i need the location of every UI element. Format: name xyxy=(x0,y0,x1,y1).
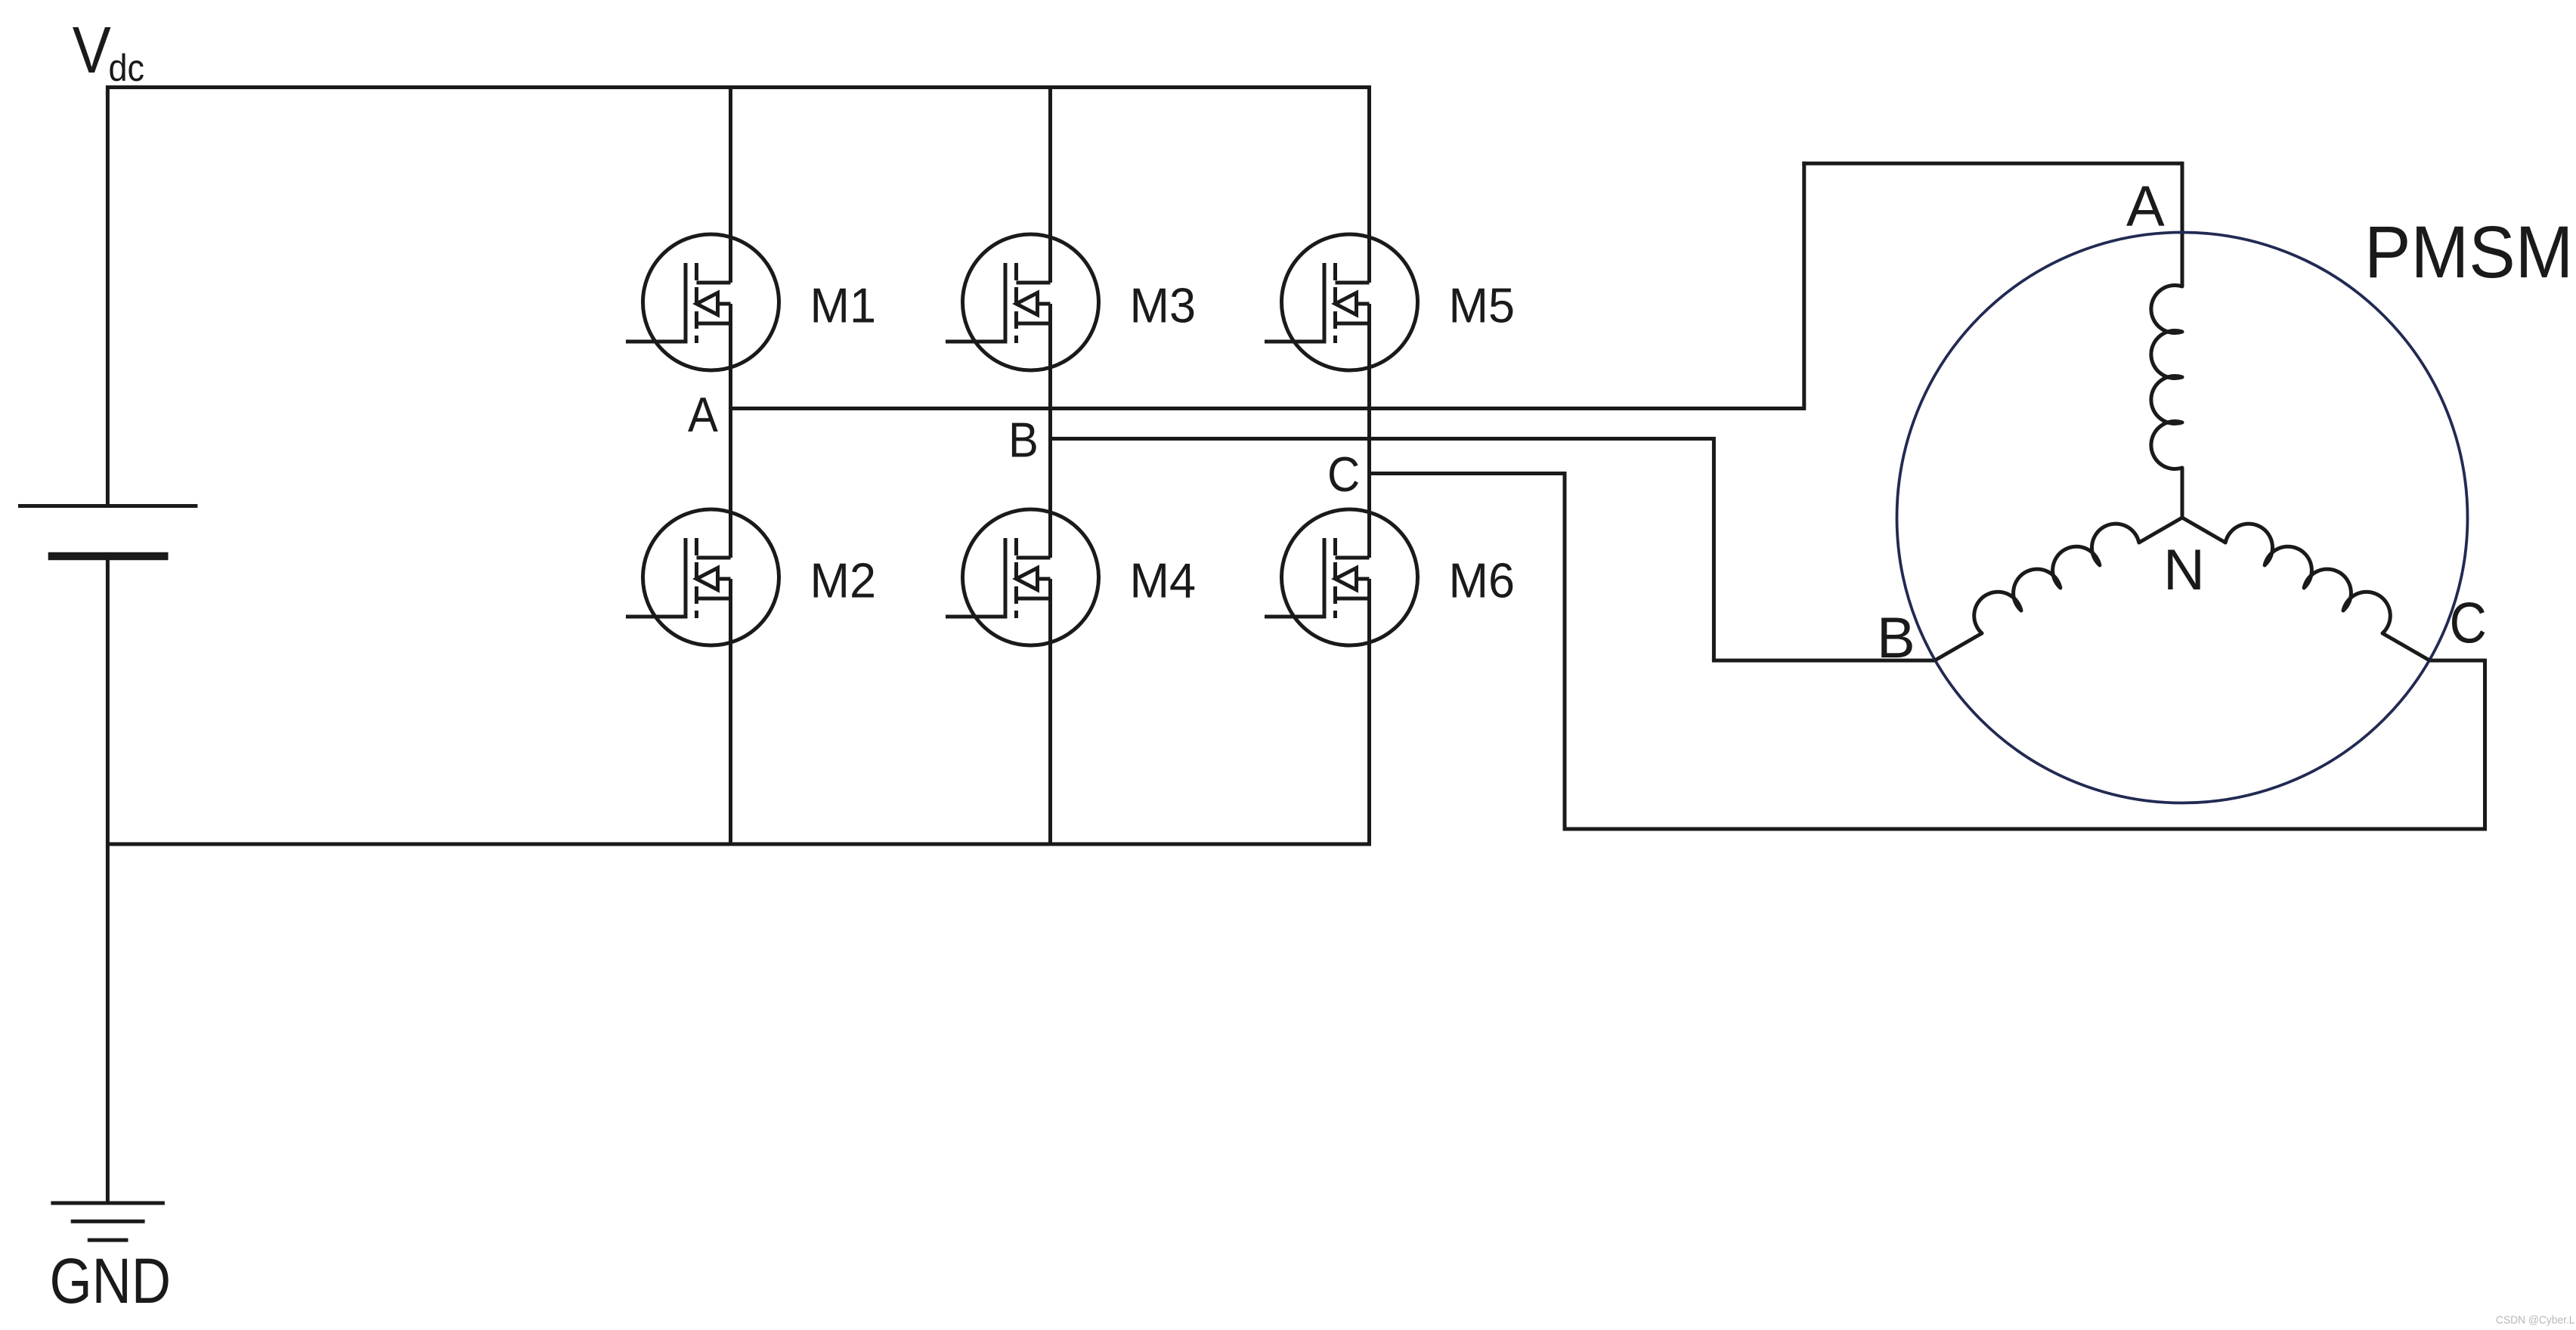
wire: battery positive lead xyxy=(106,85,110,506)
wire: M2 source leg (M2 to ground rail) xyxy=(729,579,732,846)
wire: M3 drain leg (Vdc rail to M3) xyxy=(1048,85,1052,283)
wire: M1 drain leg (Vdc rail to M1) xyxy=(729,85,732,283)
transistor M2 (N-MOSFET, low side) xyxy=(626,509,779,645)
svg-text:C: C xyxy=(2450,592,2487,655)
svg-text:M2: M2 xyxy=(810,553,877,608)
winding B (stator phase B inductor) xyxy=(1935,518,2182,660)
winding C (stator phase C inductor) xyxy=(2182,518,2429,660)
wire: phase C bottom horizontal xyxy=(1563,827,2488,831)
svg-text:B: B xyxy=(1008,413,1039,468)
battery V1 (Vdc source) xyxy=(18,506,197,557)
motor PMSM stator boundary circle xyxy=(1897,233,2468,803)
wire: phase A motor lead xyxy=(2181,162,2184,286)
wire: battery negative lead xyxy=(106,556,110,1203)
svg-text:M1: M1 xyxy=(810,278,877,333)
svg-text:M6: M6 xyxy=(1449,553,1516,608)
wire: ground rail (bottom) xyxy=(107,843,1369,846)
wire: phase B horizontal to motor terminal B xyxy=(1712,659,1935,663)
wire: M2 drain leg (node A to M2) xyxy=(729,409,732,558)
svg-text:A: A xyxy=(688,388,718,443)
wire: phase A top horizontal to motor xyxy=(1802,162,2182,165)
wire: M5 source leg (M5 to node C) xyxy=(1367,304,1371,474)
svg-text:GND: GND xyxy=(50,1245,172,1316)
label Vdc xyxy=(73,14,144,89)
wire: M3 source leg (M3 to node B) xyxy=(1048,304,1052,439)
ground xyxy=(51,1203,165,1240)
wire: phase A vertical riser xyxy=(1802,162,1806,410)
svg-text:PMSM: PMSM xyxy=(2364,212,2573,294)
wire: M5 drain leg (Vdc rail to M5) xyxy=(1367,85,1371,283)
transistor M4 (N-MOSFET, low side) xyxy=(946,509,1099,645)
svg-text:C: C xyxy=(1327,447,1360,503)
svg-text:B: B xyxy=(1877,606,1915,670)
wire: phase C right riser xyxy=(2483,660,2487,829)
transistor M6 (N-MOSFET, low side) xyxy=(1265,509,1418,645)
svg-text:N: N xyxy=(2163,538,2205,602)
wire: phase A horizontal from node A xyxy=(729,407,1804,410)
svg-text:M3: M3 xyxy=(1130,278,1197,333)
transistor M3 (N-MOSFET, high side) xyxy=(946,234,1099,370)
svg-text:A: A xyxy=(2126,175,2165,239)
wire: phase B horizontal from node B xyxy=(1048,437,1714,441)
wire: phase C horizontal from node C xyxy=(1367,472,1565,475)
svg-text:CSDN @Cyber.L: CSDN @Cyber.L xyxy=(2496,1314,2574,1327)
wire: phase C horizontal to motor terminal C xyxy=(2429,659,2487,663)
wire: M4 drain leg (node B to M4) xyxy=(1048,439,1052,558)
svg-text:V: V xyxy=(73,14,111,87)
wire: positive DC rail (top) xyxy=(107,85,1369,89)
transistor M1 (N-MOSFET, high side) xyxy=(626,234,779,370)
wire: M6 drain leg (node C to M6) xyxy=(1367,474,1371,558)
winding A (stator phase A inductor) xyxy=(2151,286,2182,518)
svg-text:dc: dc xyxy=(109,48,145,90)
svg-text:M4: M4 xyxy=(1130,553,1197,608)
wire: phase C vertical drop xyxy=(1563,472,1567,829)
wire: M6 source leg (M6 to ground rail) xyxy=(1367,579,1371,846)
transistor M5 (N-MOSFET, high side) xyxy=(1265,234,1418,370)
wire: phase B vertical drop xyxy=(1712,437,1716,660)
svg-text:M5: M5 xyxy=(1449,278,1516,333)
wire: M1 source leg (M1 to node A) xyxy=(729,304,732,409)
wire: M4 source leg (M4 to ground rail) xyxy=(1048,579,1052,846)
